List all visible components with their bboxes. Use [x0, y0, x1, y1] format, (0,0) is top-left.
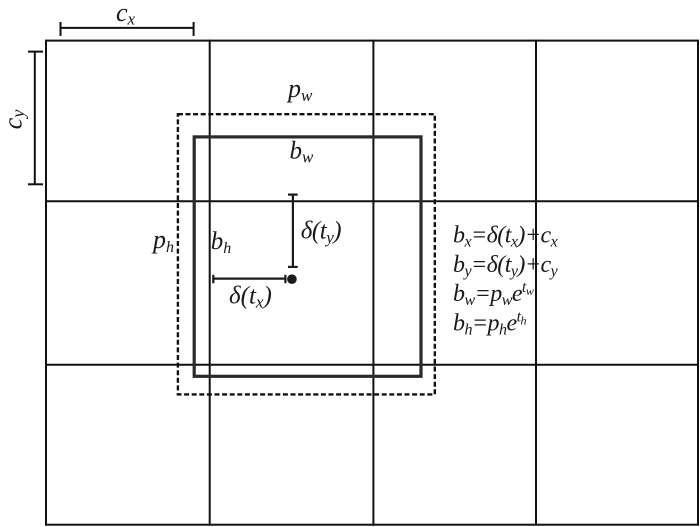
svg-text:cy: cy [0, 110, 28, 130]
predicted box (solid) [194, 137, 421, 376]
c_y measure bracket [34, 52, 36, 185]
c_x measure bracket [61, 27, 194, 29]
svg-text:bx=δ(tx)+cx: bx=δ(tx)+cx [453, 223, 558, 251]
svg-text:by=δ(ty)+cy: by=δ(ty)+cy [453, 252, 559, 280]
svg-text:cx: cx [116, 0, 136, 29]
grid vertical line 1 [209, 40, 211, 526]
svg-text:δ(tx): δ(tx) [229, 282, 272, 311]
center dot [287, 274, 297, 284]
grid horizontal line 1 [45, 200, 699, 202]
prior box (dashed) [178, 114, 435, 394]
delta(t_y) measure line [292, 195, 294, 267]
grid vertical line 3 [535, 40, 537, 526]
delta(t_x) measure line [213, 278, 285, 280]
svg-text:bw: bw [290, 138, 315, 167]
svg-text:bh: bh [211, 228, 232, 257]
grid horizontal line 2 [45, 364, 699, 366]
grid vertical line 2 [372, 40, 374, 526]
svg-text:pw: pw [286, 74, 313, 105]
svg-text:ph: ph [151, 225, 174, 256]
svg-text:bw=pwetw: bw=pwetw [453, 279, 534, 309]
svg-text:δ(ty): δ(ty) [301, 218, 341, 247]
svg-text:bh=pheth: bh=pheth [453, 308, 526, 338]
